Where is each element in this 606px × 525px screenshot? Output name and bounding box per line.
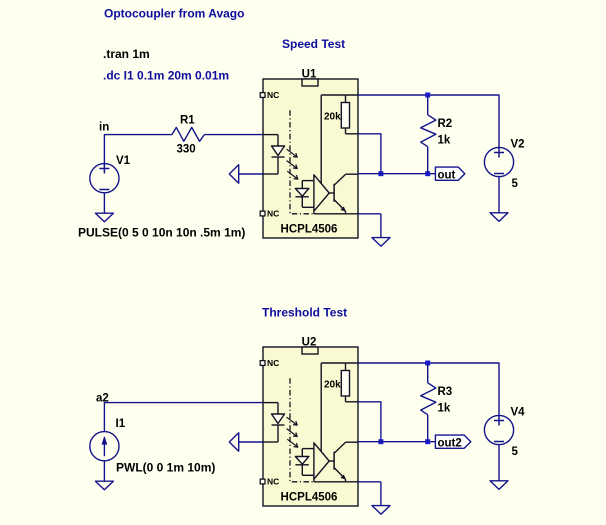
junction out2 / R3 bottom bbox=[425, 439, 430, 444]
label V1 bbox=[116, 155, 131, 167]
part number label HCPL4506 of U1 bbox=[281, 224, 338, 236]
pin NC (top) of U2 bbox=[260, 358, 279, 368]
svg-text:20k: 20k bbox=[324, 112, 341, 123]
isolation barrier dash-dot of U2 bbox=[290, 378, 314, 482]
ground at I1 bbox=[95, 481, 113, 490]
light emission arrows of U1 bbox=[287, 149, 298, 179]
LED input diode of U2 bbox=[263, 403, 285, 442]
light emission arrows of U2 bbox=[287, 417, 298, 447]
node label in bbox=[99, 122, 109, 134]
wire U1 Vcc to V2 (top rail) bbox=[358, 95, 499, 147]
svg-text:R2: R2 bbox=[438, 118, 453, 130]
svg-text:.dc I1 0.1m 20m 0.01m: .dc I1 0.1m 20m 0.01m bbox=[103, 68, 229, 82]
value PWL(0 0 1m 10m) bbox=[116, 460, 215, 474]
net flag out2 bbox=[435, 435, 470, 449]
svg-text:PWL(0 0 1m 10m): PWL(0 0 1m 10m) bbox=[116, 460, 215, 474]
wire U2 Vcc to V4 (top rail) bbox=[358, 363, 499, 415]
svg-text:NC: NC bbox=[267, 477, 279, 487]
svg-text:V1: V1 bbox=[116, 155, 131, 167]
svg-text:I1: I1 bbox=[116, 418, 126, 430]
spice directive .tran 1m bbox=[103, 47, 150, 61]
svg-text:V2: V2 bbox=[511, 139, 525, 151]
ground at U1 emitter bbox=[358, 214, 390, 246]
svg-text:5: 5 bbox=[512, 178, 519, 190]
ground at V4 bbox=[490, 481, 508, 490]
label I1 bbox=[116, 418, 126, 430]
label V2 bbox=[511, 139, 525, 151]
voltage source V2 bbox=[484, 147, 513, 176]
wire U2 collector to out2 bbox=[358, 441, 435, 443]
isolation barrier dash-dot of U1 bbox=[290, 110, 314, 214]
svg-text:PULSE(0 5 0 10n 10n .5m 1m): PULSE(0 5 0 10n 10n .5m 1m) bbox=[78, 225, 245, 239]
wire R1 to U1 anode bbox=[204, 134, 263, 136]
svg-text:Optocoupler from Avago: Optocoupler from Avago bbox=[104, 6, 244, 20]
svg-text:out: out bbox=[438, 169, 456, 181]
junction base/collector node bbox=[378, 171, 383, 176]
ground flag (rotated left) at U1 cathode bbox=[229, 165, 263, 183]
internal resistor 20k of U1 bbox=[321, 95, 358, 183]
voltage source V1 bbox=[90, 164, 119, 193]
svg-text:5: 5 bbox=[512, 446, 519, 458]
svg-text:R1: R1 bbox=[180, 115, 195, 127]
ground at V2 bbox=[490, 213, 508, 222]
label R3 bbox=[438, 386, 453, 398]
value 330 bbox=[177, 144, 196, 156]
optocoupler U2 label U2 bbox=[302, 337, 317, 349]
pin NC (bottom) of U2 bbox=[260, 477, 279, 487]
voltage source V4 bbox=[484, 415, 513, 444]
current source I1 bbox=[90, 432, 119, 461]
ground at U2 emitter bbox=[358, 482, 390, 514]
photodiode of U2 bbox=[295, 449, 314, 476]
ground at V1 bbox=[95, 213, 113, 222]
label R2 bbox=[438, 118, 453, 130]
svg-text:1k: 1k bbox=[438, 135, 451, 147]
svg-text:R3: R3 bbox=[438, 386, 453, 398]
wire V4 to ground bbox=[498, 445, 500, 481]
svg-text:.tran 1m: .tran 1m bbox=[103, 47, 150, 61]
svg-text:HCPL4506: HCPL4506 bbox=[281, 224, 338, 236]
net flag out bbox=[435, 167, 464, 181]
svg-text:20k: 20k bbox=[324, 380, 341, 391]
svg-text:1k: 1k bbox=[438, 403, 451, 415]
resistor R2 bbox=[421, 95, 436, 174]
label R1 bbox=[180, 115, 195, 127]
pin NC (bottom) of U1 bbox=[260, 209, 279, 219]
resistor R1 bbox=[172, 127, 204, 141]
junction R3 top bbox=[425, 361, 430, 366]
value 5 (V4) bbox=[512, 446, 519, 458]
value 1k (R3) bbox=[438, 403, 451, 415]
ground flag (rotated left) at U2 cathode bbox=[229, 433, 263, 451]
label V4 bbox=[511, 407, 526, 419]
svg-text:NC: NC bbox=[267, 90, 279, 100]
junction R2 top bbox=[425, 93, 430, 98]
optocoupler U2 body bbox=[263, 347, 358, 506]
output transistor of U1 bbox=[314, 174, 358, 214]
value label 20k of U2 bbox=[324, 380, 341, 391]
svg-text:Threshold Test: Threshold Test bbox=[262, 306, 347, 320]
output transistor of U2 bbox=[314, 442, 358, 482]
LED input diode of U1 bbox=[263, 135, 285, 174]
internal resistor 20k of U2 bbox=[321, 363, 358, 451]
resistor R3 bbox=[421, 363, 436, 442]
wire U1 base pullup to output node bbox=[358, 134, 381, 174]
wire I1 to ground bbox=[103, 461, 105, 481]
amplifier triangle of U2 bbox=[314, 443, 329, 479]
svg-text:out2: out2 bbox=[438, 437, 462, 449]
wire V1 to R1 bbox=[104, 135, 171, 164]
wire I1 to U2 anode bbox=[104, 403, 263, 432]
wire V1 to ground bbox=[103, 193, 105, 213]
schematic title text bbox=[104, 6, 244, 20]
svg-text:NC: NC bbox=[267, 209, 279, 219]
wire U2 base pullup to output node bbox=[358, 402, 381, 442]
optocoupler U1 label U1 bbox=[302, 69, 317, 81]
wire U1 collector to out bbox=[358, 173, 435, 175]
svg-text:NC: NC bbox=[267, 358, 279, 368]
part number label HCPL4506 of U2 bbox=[281, 492, 338, 504]
node label a2 bbox=[96, 393, 109, 405]
svg-text:HCPL4506: HCPL4506 bbox=[281, 492, 338, 504]
value 1k (R2) bbox=[438, 135, 451, 147]
photodiode of U1 bbox=[295, 181, 314, 208]
svg-text:V4: V4 bbox=[511, 407, 526, 419]
value PULSE(0 5 0 10n 10n .5m 1m) bbox=[78, 225, 245, 239]
wire V2 to ground bbox=[498, 177, 500, 213]
value label 20k of U1 bbox=[324, 112, 341, 123]
pin NC (top) of U1 bbox=[260, 90, 279, 100]
spice directive .dc I1 0.1m 20m 0.01m bbox=[103, 68, 229, 82]
optocoupler U1 body bbox=[263, 79, 358, 238]
section title Threshold Test bbox=[262, 306, 347, 320]
junction out / R2 bottom bbox=[425, 171, 430, 176]
svg-text:in: in bbox=[99, 122, 109, 134]
value 5 (V2) bbox=[512, 178, 519, 190]
svg-text:Speed Test: Speed Test bbox=[282, 37, 345, 51]
svg-text:330: 330 bbox=[177, 144, 196, 156]
amplifier triangle of U1 bbox=[314, 175, 329, 211]
section title Speed Test bbox=[282, 37, 345, 51]
junction base/collector node (bottom) bbox=[378, 439, 383, 444]
